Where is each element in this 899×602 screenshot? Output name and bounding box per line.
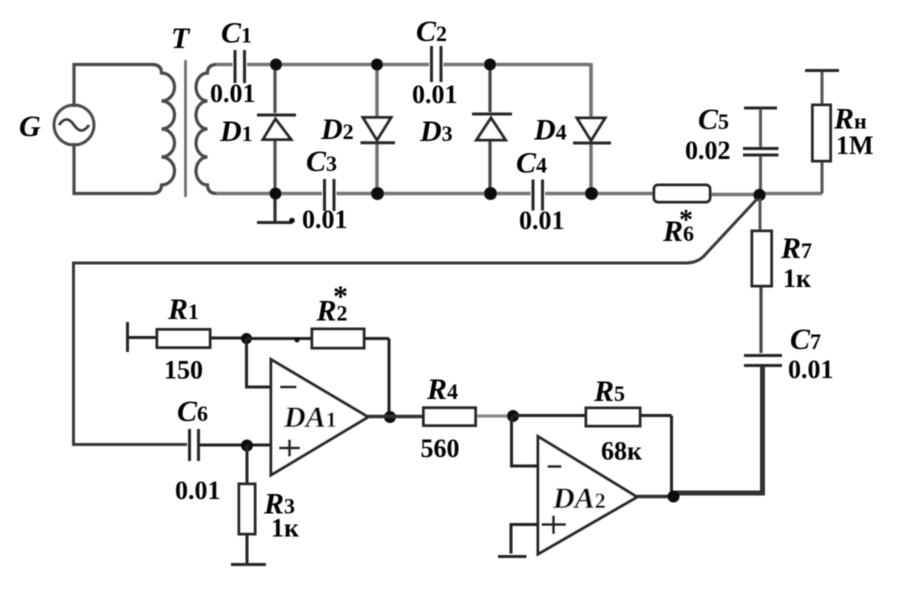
resistor R3	[239, 445, 299, 563]
node D1 bottom	[270, 188, 282, 200]
node DA2 output	[668, 491, 680, 503]
svg-text:0.01: 0.01	[175, 476, 221, 505]
node D4 bottom	[585, 187, 598, 200]
svg-text:T: T	[171, 22, 191, 55]
op-amp DA2	[538, 437, 637, 555]
ground at R3	[231, 563, 266, 566]
resistor R2	[247, 280, 390, 414]
wire bottom bus	[216, 194, 822, 195]
svg-text:1М: 1М	[836, 131, 874, 160]
resistor R7	[752, 199, 812, 353]
generator G	[19, 105, 94, 145]
transformer T primary winding	[152, 65, 175, 194]
svg-text:150: 150	[164, 356, 203, 385]
diode D2	[320, 65, 395, 189]
capacitor C1	[210, 17, 256, 109]
svg-text:1к: 1к	[783, 264, 811, 293]
node D3 bottom	[484, 187, 497, 200]
capacitor C7	[744, 323, 834, 384]
node main junction	[753, 189, 765, 201]
ground at D1	[273, 199, 276, 221]
wire top bus	[216, 63, 591, 116]
speck node	[295, 338, 300, 343]
capacitor C5	[685, 103, 779, 190]
op-amp DA1	[271, 360, 368, 476]
ground at DA2	[498, 555, 527, 558]
svg-text:1к: 1к	[271, 514, 299, 543]
wire C7 to DA2 output (thick)	[674, 367, 763, 493]
capacitor C6	[175, 395, 221, 505]
resistor R6	[654, 185, 710, 248]
svg-text:G: G	[19, 110, 41, 143]
node R4/R5/DA2 inverting	[507, 410, 519, 422]
transformer T core	[184, 60, 187, 197]
resistor R4	[368, 373, 513, 463]
diode D3	[419, 65, 512, 189]
capacitor C3	[302, 145, 348, 234]
node R1/R2/inverting input	[241, 333, 252, 344]
capacitor C4	[516, 147, 565, 236]
wire to DA1 inverting input	[247, 339, 272, 388]
wire DA2 output	[637, 495, 674, 498]
svg-text:0.01: 0.01	[302, 205, 348, 234]
svg-text:*: *	[333, 280, 348, 313]
diode D1	[219, 65, 296, 189]
svg-text:0.01: 0.01	[210, 79, 256, 108]
transformer T secondary winding	[196, 65, 217, 194]
wire feedback from main node to C6	[74, 199, 758, 445]
svg-text:68к: 68к	[601, 437, 642, 466]
svg-text:*: *	[679, 205, 693, 236]
resistor R5	[513, 375, 672, 492]
node D2 top	[371, 59, 383, 71]
resistor R1	[128, 293, 248, 385]
node D2 bottom	[371, 187, 384, 200]
node D1 top	[270, 59, 282, 71]
wire primary loop top	[74, 65, 154, 108]
capacitor C2	[412, 15, 458, 109]
terminal at R1 left	[126, 322, 129, 352]
node C6/R3/non-inverting	[241, 440, 253, 452]
svg-text:0.02: 0.02	[685, 136, 731, 165]
wire DA2 non-inverting to ground	[511, 525, 538, 554]
node D3 top	[484, 59, 496, 71]
svg-text:560: 560	[421, 434, 460, 463]
wire primary loop bottom	[74, 143, 154, 194]
speck artifact	[289, 218, 295, 224]
node DA1 output	[384, 411, 396, 423]
wire to DA2 inverting input	[512, 416, 540, 466]
diode D4	[533, 114, 611, 189]
svg-text:0.01: 0.01	[788, 355, 834, 384]
svg-text:0.01: 0.01	[412, 80, 458, 109]
resistor RH load	[805, 71, 874, 194]
svg-text:0.01: 0.01	[519, 206, 565, 235]
wire C6 to DA1 non-inverting input	[200, 444, 271, 447]
